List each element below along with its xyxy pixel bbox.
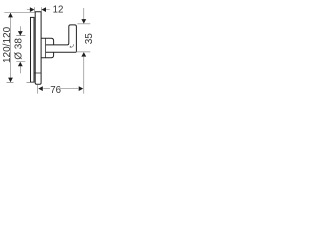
rotation indicator curl: [70, 44, 73, 47]
svg-text:76: 76: [50, 85, 61, 96]
dim 35: bottom stem: [83, 57, 85, 94]
svg-text:Ø 38: Ø 38: [14, 38, 25, 60]
dim 35: bottom extension line: [77, 51, 90, 53]
grip bottom / paddle bottom: [46, 51, 77, 53]
dim Ø38: stems: [19, 26, 21, 73]
dim 120/120: dimension line: [10, 13, 12, 82]
dim 35: arrows: [81, 19, 86, 24]
dim 120/120: top extension line: [4, 12, 34, 14]
svg-text:12: 12: [53, 4, 64, 15]
dim Ø38: arrows: [18, 31, 23, 35]
wall plate (escutcheon, side view): [35, 12, 41, 85]
concealed valve body (in-wall box): [31, 17, 35, 82]
dim 35: top extension line: [77, 23, 90, 25]
bell inner ring line: [45, 38, 47, 58]
dim 12: dimension line segments: [27, 9, 50, 11]
plate internal line near bottom: [34, 72, 41, 74]
dim 12: arrows: [30, 7, 35, 12]
dim 76: dimension line segments: [43, 88, 78, 90]
dim 76: arrows: [38, 86, 43, 91]
dim 12: extension lines: [35, 7, 42, 13]
handle bell lower contour: [41, 52, 54, 58]
svg-text:120/120: 120/120: [2, 26, 13, 63]
dim Ø38: extension lines: [16, 36, 25, 62]
dim 76: left extension line: [37, 85, 39, 94]
dim 35: top stem: [83, 8, 85, 19]
dim 120/120: bottom extension segments: [7, 81, 36, 83]
grip top / paddle outline: [46, 25, 77, 52]
svg-text:35: 35: [84, 33, 95, 45]
handle bell upper contour: [41, 38, 54, 45]
dim 120/120: arrows: [8, 13, 13, 18]
